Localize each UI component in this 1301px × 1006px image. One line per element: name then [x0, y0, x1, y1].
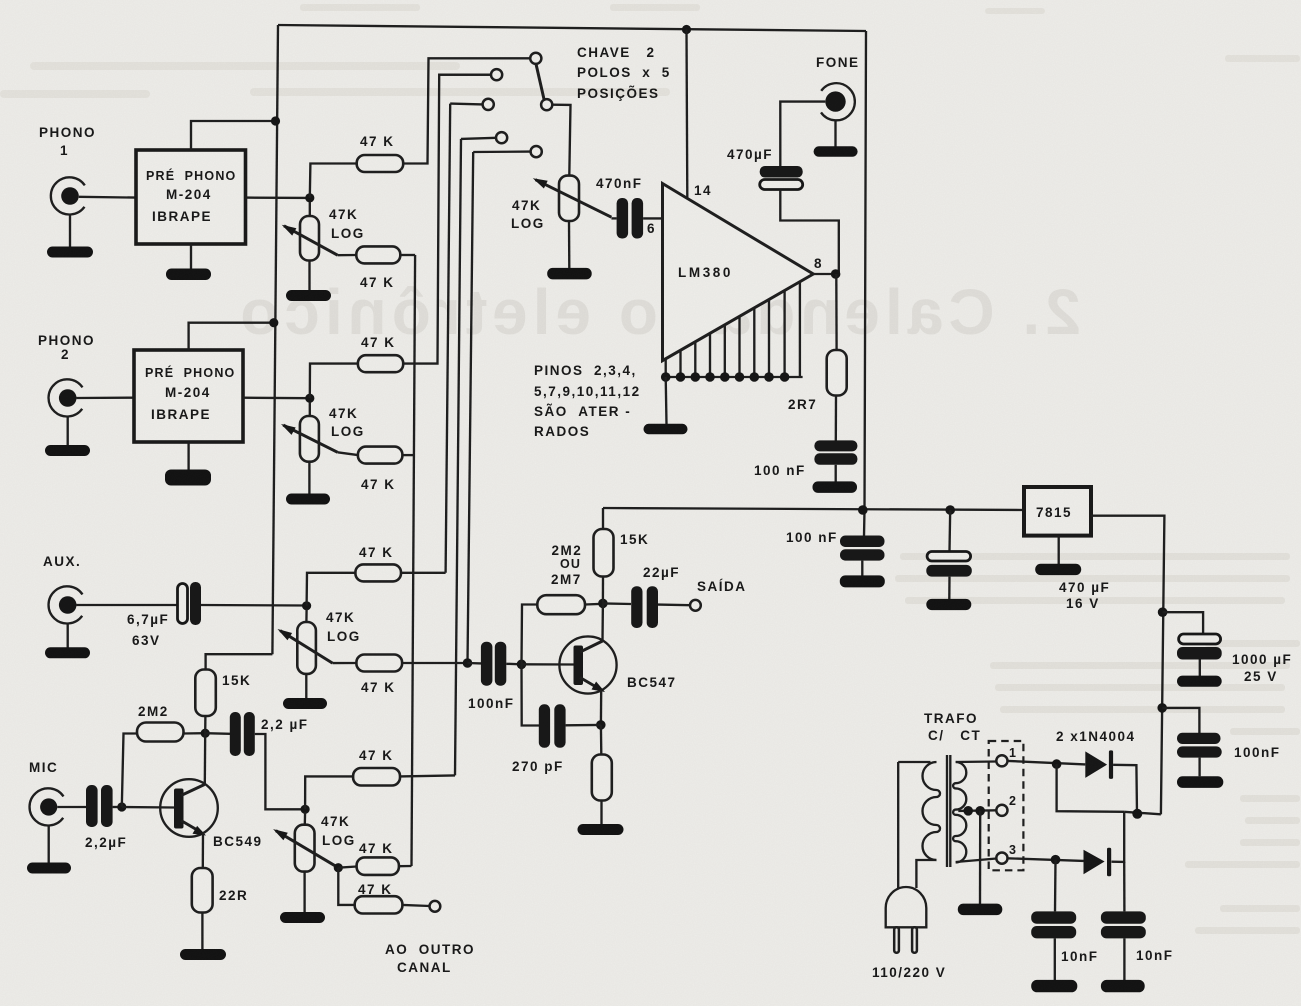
- wire: pole to volume pot P5: [552, 105, 570, 176]
- wire: PRE PHONO2 output: [243, 397, 310, 400]
- potentiometer P2 47K LOG: [281, 402, 338, 462]
- wire: AUX cap to junction: [201, 604, 307, 607]
- wire: PRE PHONO2 Vcc to bus: [189, 323, 274, 350]
- ground: pot P2: [308, 462, 310, 494]
- node: D1 anode junction: [1052, 759, 1062, 769]
- resistor R5 47K (aux to switch): [355, 564, 401, 581]
- resistor R10 2R7: [835, 274, 838, 350]
- ground: PRE PHONO2: [187, 442, 189, 470]
- wire: D1 cathode to DC bus: [1113, 765, 1137, 814]
- connector SAIDA terminal: [690, 600, 701, 611]
- capacitor C15 100nF (input filter): [1162, 708, 1199, 733]
- ground: pot P3: [305, 674, 307, 699]
- node: bus junction PHONO2: [269, 318, 278, 327]
- ground: center tap: [979, 811, 982, 904]
- node: pot4 wiper junction: [334, 863, 343, 872]
- wire: base node to transistor: [122, 806, 174, 809]
- wire: riser MIC junction to 47K row7: [305, 776, 353, 809]
- wire: DC bus to main riser: [1124, 812, 1161, 815]
- connector J2 PHONO2 jack: [49, 379, 134, 416]
- potentiometer P1 47K LOG: [282, 202, 338, 261]
- wire: 7815 input from rectifier: [1091, 516, 1164, 815]
- node: bus junction PHONO1: [271, 116, 280, 125]
- plug P1 110/220V: [886, 887, 927, 953]
- connector: AO OUTRO CANAL terminal: [402, 905, 429, 906]
- transformer T1 secondary: [953, 762, 996, 863]
- connector J4 MIC jack: [30, 788, 86, 825]
- ghost bleed-through top: [0, 4, 1300, 98]
- diode D2 1N4004: [1084, 850, 1105, 875]
- node: PHONO2 output junction: [305, 394, 314, 403]
- terminal strip dashed box: [989, 741, 1024, 870]
- wire: contact2 lead: [439, 74, 491, 76]
- transformer T1 primary: [898, 762, 940, 888]
- node: D2 anode junction (10nF A): [1051, 855, 1061, 865]
- resistor R2 47K (pot1 wiper to mix bus): [338, 254, 357, 257]
- wire: 15K top to preamp bus: [206, 654, 273, 669]
- ground: FONE jack: [834, 120, 836, 147]
- wire: 470uF to pin8 node: [780, 190, 839, 275]
- resistor R13 22R (emitter): [192, 868, 213, 913]
- ground: LM380 comb: [665, 377, 668, 424]
- wire: FONE to 470uF: [780, 102, 825, 166]
- transformer T1 core: [946, 755, 948, 867]
- wire: row6 output to mix node: [402, 662, 467, 664]
- resistor R14 47K (mic to switch): [353, 768, 400, 786]
- resistor R9 emitter resistor: [600, 725, 603, 755]
- switch S1 arm: [536, 64, 544, 100]
- node: center tap dots: [963, 806, 973, 816]
- node: AUX junction: [302, 601, 311, 610]
- wire: right border from top rail down to supply rail: [864, 31, 866, 536]
- node: rail / 470uF junction: [945, 505, 955, 515]
- terminal 3: [996, 853, 1007, 864]
- capacitor C9 22uF (output coupling): [603, 602, 631, 605]
- wire: 2M2 to collector node: [184, 732, 206, 735]
- regulator U4 7815: [1024, 487, 1091, 536]
- block U2 PRE PHONO M-204 IBRAPE (channel 1): [136, 150, 246, 244]
- wire: riser to 47K row5: [307, 573, 356, 606]
- node: BC549 collector junction: [201, 729, 210, 738]
- capacitor C13 470uF 16V: [948, 510, 951, 551]
- LM380 ground comb: [661, 282, 803, 382]
- capacitor C14 1000uF 25V: [1163, 612, 1204, 633]
- wire: 2M7 to collector node: [585, 603, 603, 606]
- wire: row2 to mix bus: [400, 254, 415, 256]
- ground: pot P4: [303, 872, 305, 913]
- wire: supply rail corner down to 15K top: [602, 508, 604, 529]
- ground: PHONO1 jack: [69, 215, 71, 248]
- resistor R16 47K (to other channel): [338, 868, 354, 905]
- transistor Q2 BC547: [559, 603, 616, 725]
- transistor Q1 BC549: [160, 733, 218, 868]
- node: pin8 junction: [831, 269, 841, 279]
- ground: pot P5: [568, 221, 571, 268]
- resistor R7 15K (collector load): [602, 576, 604, 603]
- connector J1 PHONO1 jack: [51, 177, 136, 214]
- capacitor C17 10nF (on D2 cathode): [1123, 862, 1126, 912]
- capacitor C4 2,2uF (mic input): [86, 785, 98, 827]
- wire: row5 to contact3 vertical: [401, 572, 446, 574]
- op-amp U1 LM380: [663, 184, 814, 361]
- wire: pin 6 stub: [643, 217, 662, 219]
- switch S1 contact 3: [483, 99, 494, 110]
- ground: BC547 emitter: [600, 801, 602, 826]
- node: BC549 base junction: [117, 802, 126, 811]
- capacitor C16 10nF (on D2 anode): [1054, 860, 1057, 912]
- connector J3 AUX jack: [49, 586, 177, 623]
- ghost bleed-through paragraph right: [895, 553, 1300, 934]
- wire: PRE PHONO1 Vcc to bus: [191, 121, 276, 150]
- capacitor C12 100nF (rail decoupling): [840, 536, 885, 548]
- wire: terminal1 to diode D1: [1008, 761, 1086, 765]
- resistor R4 47K (pot2 wiper to mix bus): [338, 452, 358, 455]
- resistor R12 2M2 (bias feedback): [122, 734, 137, 808]
- wire: PRE PHONO1 output: [246, 196, 311, 199]
- wire: riser to 47K row1: [310, 164, 357, 198]
- capacitor C10 270pF: [522, 664, 540, 725]
- wire: row8 to mix bus bottom: [399, 865, 412, 868]
- potentiometer P4 47K LOG: [273, 812, 338, 872]
- node: BC547 base junction: [517, 660, 527, 670]
- wire: mix bus vertical: [412, 255, 416, 866]
- node: mix node before coupling cap: [463, 658, 473, 668]
- capacitor C8 100nF (coupling to BC547): [468, 662, 482, 665]
- wire: terminal3 to diode D2: [1008, 858, 1084, 861]
- wire: D1 anode wrap to DC bus row: [1057, 764, 1125, 812]
- wire: riser to 47K row3: [310, 364, 358, 399]
- node: PHONO1 output junction: [305, 193, 314, 202]
- wire: contact4 lead: [461, 138, 496, 139]
- potentiometer P3 47K LOG: [278, 609, 333, 674]
- ground: MIC jack: [48, 826, 50, 863]
- potentiometer P5 47K LOG (volume): [533, 176, 612, 221]
- resistor R6 47K (pot3 wiper to mix): [333, 662, 357, 664]
- ground: BC549 emitter: [201, 913, 203, 951]
- node: junction 100nF right: [1157, 703, 1167, 713]
- wire: cap to base node: [113, 806, 122, 808]
- resistor R8 2M2 OU 2M7 (feedback bias): [522, 605, 538, 665]
- terminal 1: [996, 755, 1007, 766]
- wire: contact5 vertical to mix node: [468, 152, 474, 663]
- switch S1 contact 2: [491, 69, 502, 80]
- switch S1 contact 4: [496, 132, 507, 143]
- wire: pin8 to node: [813, 273, 835, 275]
- capacitor C5 470nF: [611, 217, 616, 219]
- node: rail / right border junction: [858, 505, 868, 515]
- resistor R1 47K (phono1 to switch): [357, 155, 404, 172]
- node: junction top rail / LM380 pin 14: [682, 25, 691, 34]
- capacitor C6 470uF (output electrolytic): [760, 166, 803, 178]
- ghost bleed-through headline: [235, 276, 1081, 348]
- capacitor C3 6,7uF 63V: [178, 584, 188, 624]
- capacitor C11 2,2uF (BC549 output): [205, 732, 230, 735]
- resistor R3 47K (phono2 to switch): [358, 355, 403, 372]
- wire: LM380 pin 14 drop: [685, 30, 688, 198]
- wire: row3 to switch contact 2: [403, 75, 491, 364]
- ground: PRE PHONO1: [190, 244, 192, 269]
- connector J5 FONE jack: [821, 83, 855, 120]
- wire: contact3 vertical to row5: [446, 104, 451, 573]
- wire: cap to base node: [506, 663, 521, 666]
- switch S1 pole: [541, 99, 552, 110]
- wire: base node to transistor: [522, 663, 575, 666]
- wire: main supply rail to 7815: [603, 508, 1024, 510]
- wire: contact4 vertical to row7: [455, 139, 461, 776]
- node: BC547 emitter junction: [596, 720, 606, 730]
- wire: row7 to contact4 vertical: [400, 775, 455, 776]
- wire: row4 to mix bus: [402, 454, 414, 456]
- resistor R11 15K (collector load): [195, 670, 216, 717]
- node: DC bus junction: [1132, 809, 1142, 819]
- wire: 2.2uF to MIC mix junction: [255, 734, 305, 809]
- resistor R15 47K (pot4 wiper to mix bus): [338, 867, 356, 868]
- node: MIC channel junction: [301, 805, 310, 814]
- terminal 2: [996, 805, 1007, 816]
- node: BC547 collector junction: [598, 599, 608, 609]
- ground: 7815: [1058, 536, 1060, 564]
- wire: contact5 lead: [473, 150, 530, 153]
- switch S1 contact 1: [530, 53, 541, 64]
- ground: zobel: [813, 481, 858, 493]
- wire: top supply rail: [278, 25, 866, 31]
- wire: 22uF to SAIDA: [658, 603, 690, 606]
- diode D1 1N4004: [1085, 751, 1107, 778]
- wire: contact3 lead: [450, 102, 482, 105]
- wire: left preamp supply bus: [272, 25, 278, 654]
- block U3 PRE PHONO M-204 IBRAPE (channel 2): [134, 350, 243, 442]
- wire: row1 to switch contact 1: [403, 58, 530, 163]
- wire: D2 cathode riser to DC bus: [1112, 812, 1125, 862]
- capacitor C7 100nF (zobel): [835, 396, 838, 442]
- ground: pot P1: [308, 261, 310, 292]
- node: junction 1000uF: [1158, 607, 1168, 617]
- ground: AUX jack: [67, 624, 69, 648]
- ground: PHONO2 jack: [67, 417, 69, 446]
- switch S1 contact 5: [531, 146, 542, 157]
